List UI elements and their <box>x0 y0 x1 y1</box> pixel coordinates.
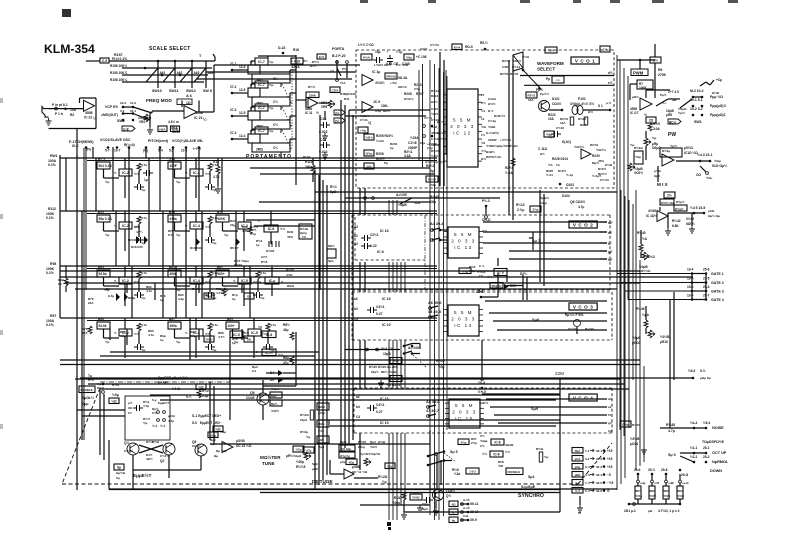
svg-text:M I X: M I X <box>657 182 669 187</box>
svg-text:0.01 CE: 0.01 CE <box>386 62 399 66</box>
svg-text:22M: 22M <box>555 371 564 376</box>
svg-text:100K: 100K <box>218 217 226 221</box>
left long verticals <box>76 155 78 490</box>
svg-text:4½Ω½: 4½Ω½ <box>375 81 385 85</box>
resistor R83 100+ <box>226 322 239 329</box>
svg-text:KLM-354: KLM-354 <box>44 42 95 56</box>
resistor R149 10A <box>634 151 643 164</box>
label SW box effect <box>114 464 124 470</box>
svg-text:R½22: R½22 <box>649 494 656 498</box>
trimmer under IC-5 <box>266 323 270 331</box>
gate feed wires <box>617 273 692 275</box>
central vertical bus B <box>340 100 342 452</box>
svg-text:R54(½H: R54(½H <box>492 284 502 288</box>
svg-text:A-15: A-15 <box>463 498 470 502</box>
svg-text:Gμ½Ω: Gμ½Ω <box>116 471 126 475</box>
svg-text:B-2 P-20: B-2 P-20 <box>332 54 346 58</box>
resistor R93 470K <box>317 403 329 410</box>
svg-text:Ω½C½: Ω½C½ <box>404 97 414 101</box>
svg-text:C108: C108 <box>402 62 410 66</box>
svg-text:1μ: 1μ <box>390 146 394 150</box>
svg-text:2½: 2½ <box>667 194 672 198</box>
svg-text:C2½: C2½ <box>261 255 268 259</box>
svg-text:½7μ: ½7μ <box>396 50 402 54</box>
svg-text:R½4Ω: R½4Ω <box>634 146 643 150</box>
wire mix node <box>657 166 659 182</box>
svg-text:Pμ: Pμ <box>384 161 388 165</box>
svg-text:Ω½: Ω½ <box>588 110 593 114</box>
svg-text:+½μ: +½μ <box>360 129 366 133</box>
svg-text:32-2: 32-2 <box>596 457 602 461</box>
cap under IC-2 <box>134 292 144 298</box>
svg-text:4.7¼: 4.7¼ <box>136 230 143 234</box>
bus rail R97 <box>60 317 437 319</box>
svg-text:μΩ14: μΩ14 <box>630 442 638 446</box>
svg-text:R½7: R½7 <box>88 378 95 382</box>
svg-text:JC 9: JC 9 <box>373 100 380 104</box>
svg-text:R½1μ: R½1μ <box>635 494 642 498</box>
svg-text:Ω½μ: Ω½μ <box>366 152 373 156</box>
svg-text:0.1%: 0.1% <box>48 163 56 167</box>
svg-text:½μ½: ½μ½ <box>670 144 677 148</box>
svg-text:32-3: 32-3 <box>596 465 602 469</box>
wire stub left of IC-2 <box>103 277 105 286</box>
svg-text:D10 D11: D10 D11 <box>190 246 202 250</box>
svg-text:R81: R81 <box>169 318 175 322</box>
svg-text:½00-4Ωμ: ½00-4Ωμ <box>340 447 351 451</box>
svg-text:12-5: 12-5 <box>239 111 246 115</box>
cap under IC-5 <box>263 344 273 350</box>
wires mixer2 <box>659 207 661 211</box>
svg-text:47Ω: 47Ω <box>598 159 604 163</box>
svg-text:Ω½μ: Ω½μ <box>622 423 629 427</box>
svg-text:RΩ½: RΩ½ <box>328 244 335 248</box>
svg-text:½μ½: ½μ½ <box>678 111 685 115</box>
svg-text:μΩμ Sμ: μΩμ Sμ <box>700 376 711 380</box>
svg-text:−½5: −½5 <box>607 481 614 485</box>
svg-text:½0μ: ½0μ <box>112 393 119 397</box>
svg-text:R8½: R8½ <box>283 323 290 327</box>
svg-text:½μ: ½μ <box>382 480 387 484</box>
svg-text:IC-8: IC-8 <box>493 453 499 457</box>
svg-text:IC-½: IC-½ <box>265 351 273 355</box>
gate wires down <box>691 274 693 300</box>
wire left bottom vertical <box>559 440 561 489</box>
svg-text:10A: 10A <box>548 117 555 121</box>
svg-text:SW1: SW1 <box>694 120 702 124</box>
svg-text:R½μ½: R½μ½ <box>676 200 685 204</box>
svg-text:5-7: 5-7 <box>105 149 110 153</box>
svg-text:½μ: ½μ <box>143 421 148 425</box>
svg-text:5μΩ: 5μΩ <box>328 259 334 263</box>
effect transistors Q1 Q2 <box>127 443 139 455</box>
svg-text:μ7μ: μ7μ <box>340 460 346 464</box>
svg-text:4Ω½: 4Ω½ <box>146 457 153 461</box>
svg-text:½Ω½: ½Ω½ <box>420 47 428 51</box>
box 25a vco3 row <box>390 358 402 364</box>
svg-text:I½A: I½A <box>340 81 346 85</box>
svg-text:½Ωμ: ½Ωμ <box>714 159 721 163</box>
svg-text:TUNE: TUNE <box>262 461 275 466</box>
svg-text:R½42: R½42 <box>672 219 681 223</box>
svg-text:R208: R208 <box>404 92 412 96</box>
feedback loop wire for IC22 <box>80 97 97 99</box>
svg-text:5-μ: 5-μ <box>152 398 157 402</box>
svg-text:C2: C2 <box>354 242 358 246</box>
svg-text:μR15: μR15 <box>660 340 668 344</box>
resistor R205 R206 block <box>364 134 374 140</box>
op-amp IC22 1/2 effect <box>222 442 233 453</box>
svg-text:0.22: 0.22 <box>370 244 377 248</box>
svg-text:13-0: 13-0 <box>687 294 694 298</box>
svg-text:C½11: C½11 <box>360 118 368 122</box>
svg-text:D-22: D-22 <box>278 46 285 50</box>
wire to C-9 <box>86 60 100 62</box>
svg-text:Q½: Q½ <box>446 494 451 498</box>
analog switch IC-4 <box>190 222 203 229</box>
svg-text:½ΩΩ: ½ΩΩ <box>488 125 496 129</box>
input jack P in <box>42 107 49 118</box>
svg-text:R2½9: R2½9 <box>590 143 598 147</box>
svg-text:μR5: μR5 <box>666 113 672 117</box>
box DOUBLE <box>79 386 95 393</box>
svg-text:2½: 2½ <box>335 112 340 116</box>
box 29a vco3 row <box>390 376 402 382</box>
svg-text:½0½B: ½0½B <box>630 437 640 441</box>
svg-text:2.½μ: 2.½μ <box>517 208 524 212</box>
svg-text:D½U: D½U <box>206 338 213 342</box>
svg-text:Pμμ(μΩ)½: Pμμ(μΩ)½ <box>710 104 726 108</box>
svg-text:5 5 M: 5 5 M <box>454 232 473 237</box>
svg-text:4½Ω: 4½Ω <box>286 273 293 277</box>
svg-text:459a: 459a <box>170 324 177 328</box>
svg-text:4 Tμ: 4 Tμ <box>143 404 149 408</box>
svg-text:GATE 2: GATE 2 <box>711 281 724 285</box>
svg-text:1μ: 1μ <box>144 178 148 182</box>
wire from 22M down <box>559 378 561 440</box>
svg-text:½Ω: ½Ω <box>481 125 487 129</box>
svg-text:1000P: 1000P <box>408 146 418 150</box>
svg-text:½2μ: ½2μ <box>430 183 436 187</box>
svg-text:10-7: 10-7 <box>114 149 121 153</box>
svg-text:PORTAMENTO: PORTAMENTO <box>246 154 292 160</box>
arrow box 23 <box>334 118 345 123</box>
wire stub left of IC-2 <box>103 169 105 178</box>
svg-text:R2: R2 <box>70 113 74 117</box>
portamento row 4 wires <box>250 130 252 134</box>
svg-text:R119: R119 <box>305 160 313 164</box>
wire stub left of IC-4 <box>174 169 176 178</box>
svg-text:R½Ω: R½Ω <box>152 440 160 444</box>
waveform select switch flag <box>513 52 523 71</box>
box 31 <box>213 426 223 432</box>
svg-text:R½Ω: R½Ω <box>536 447 544 451</box>
svg-text:C3½1: C3½1 <box>376 305 385 309</box>
cap under IC-2 <box>134 344 144 350</box>
analog switch IC-4 <box>190 277 203 284</box>
svg-text:R97: R97 <box>50 314 56 318</box>
switch SW5 arms <box>428 452 444 457</box>
svg-text:½μ: ½μ <box>224 233 229 237</box>
svg-text:R230: R230 <box>592 154 600 158</box>
svg-text:P½: P½ <box>342 67 347 71</box>
bus rail R98 <box>60 265 437 267</box>
analog switch IC-2 <box>119 329 132 336</box>
svg-text:IO-C: IO-C <box>72 144 79 148</box>
resistor R15 4.7K <box>216 166 220 174</box>
resistor R34 55a 0.1% <box>97 215 110 222</box>
svg-text:12-4: 12-4 <box>239 134 246 138</box>
svg-text:230K: 230K <box>309 93 317 97</box>
cross coupling wires Q1 Q2 <box>139 445 163 453</box>
svg-text:IC1Ω ½Ω: IC1Ω ½Ω <box>684 151 698 155</box>
svg-text:IC 16: IC 16 <box>382 297 391 301</box>
svg-text:C1½8: C1½8 <box>408 141 417 145</box>
wire vco2 bottom cluster <box>497 258 499 266</box>
svg-text:C7: C7 <box>128 411 132 415</box>
svg-text:½μ: ½μ <box>176 233 181 237</box>
svg-text:C11: C11 <box>320 138 326 142</box>
cap under IC-4 <box>205 237 215 243</box>
svg-text:C11Ω: C11Ω <box>488 97 496 101</box>
svg-text:3.0A: 3.0A <box>653 127 660 131</box>
svg-text:½2: ½2 <box>481 141 486 145</box>
IC13 chip SSM 2033 <box>448 227 479 258</box>
svg-text:NμRMΩL: NμRMΩL <box>712 460 729 464</box>
resistor R81 459a <box>168 322 181 329</box>
transistor Q8 <box>195 444 207 456</box>
wire stub left of IC-4 <box>174 329 176 338</box>
svg-text:½Ωμ: ½Ωμ <box>210 433 217 437</box>
svg-text:D½U: D½U <box>206 295 213 299</box>
svg-text:C½: C½ <box>480 444 485 448</box>
wire IC21 output right <box>197 111 214 113</box>
svg-text:24μA: 24μA <box>300 418 308 422</box>
resistor R54 3H diode D26 <box>490 283 503 289</box>
horizontal mid links <box>250 167 430 169</box>
resistor R94 55A <box>317 420 329 427</box>
svg-text:EμμE½T: EμμE½T <box>158 401 169 405</box>
svg-text:2MΩ: 2MΩ <box>256 148 263 152</box>
porta junction wires <box>296 99 306 101</box>
svg-text:½μ: ½μ <box>176 340 181 344</box>
svg-text:4.7a: 4.7a <box>212 323 218 327</box>
svg-text:29-½: 29-½ <box>648 468 656 472</box>
svg-text:R½5: R½5 <box>653 122 660 126</box>
svg-text:R89: R89 <box>98 318 104 322</box>
arrow box D-3 <box>668 119 681 124</box>
VCO2 inner sub-box dashed <box>355 259 425 261</box>
svg-text:C-½Ω½¼: C-½Ω½¼ <box>431 137 445 141</box>
svg-text:D16 D15: D16 D15 <box>131 245 143 249</box>
svg-text:A16: A16 <box>169 158 175 162</box>
svg-text:½00½: ½00½ <box>271 409 279 413</box>
wire bundle bottom into transistor <box>436 455 438 489</box>
portamento row 1 wires <box>250 61 252 65</box>
svg-text:R½4½ 4ΩA: R½4½ 4ΩA <box>661 201 675 205</box>
op-amp IC11 1/2 portamento <box>308 98 318 108</box>
wire freq mod to opamp IC21 <box>152 110 184 112</box>
wire vco3 29-5 link <box>481 340 483 379</box>
svg-text:6.4: 6.4 <box>252 369 257 373</box>
ground under VR14 <box>641 447 647 454</box>
resistor R11B 2ACA 1% box <box>299 224 312 239</box>
svg-text:Pμ½½: Pμ½½ <box>540 92 549 96</box>
svg-text:R½12: R½12 <box>431 89 439 93</box>
svg-text:R½0μ: R½0μ <box>300 430 308 434</box>
svg-text:25-2: 25-2 <box>703 455 710 459</box>
svg-text:IC-4: IC-4 <box>193 171 200 175</box>
svg-text:IC 21: IC 21 <box>194 116 203 120</box>
svg-text:5%: 5% <box>86 148 92 152</box>
svg-text:1μ: 1μ <box>160 338 164 342</box>
svg-text:½μ: ½μ <box>544 455 549 459</box>
svg-text:DOWN: DOWN <box>710 469 722 473</box>
svg-text:4.7a: 4.7a <box>141 163 147 167</box>
svg-text:R226 D101: R226 D101 <box>552 157 568 161</box>
diode CR6 <box>330 87 340 93</box>
svg-text:RW1: RW1 <box>50 154 58 158</box>
bus rail RW1 <box>60 157 437 159</box>
svg-text:SW11: SW11 <box>169 89 179 93</box>
svg-text:IC /17: IC /17 <box>630 111 639 115</box>
svg-text:½0μ: ½0μ <box>635 155 641 159</box>
cap under IC-4 <box>205 344 215 350</box>
svg-text:A=½00: A=½00 <box>408 346 419 350</box>
svg-text:10-3: 10-3 <box>120 101 126 105</box>
svg-text:C½: C½ <box>603 48 608 52</box>
svg-text:3-2: 3-2 <box>585 457 590 461</box>
svg-text:Ω½Ω: Ω½Ω <box>605 163 613 167</box>
box 29 <box>646 117 656 123</box>
op-amp IC19 <box>362 75 373 86</box>
svg-text:f4': f4' <box>608 413 612 417</box>
svg-text:C½: C½ <box>273 100 278 104</box>
svg-text:1μ: 1μ <box>232 297 236 301</box>
right bundle verticals <box>635 190 637 470</box>
wire pwm top <box>639 60 641 69</box>
svg-text:CD½: CD½ <box>332 88 339 92</box>
svg-text:d½´: d½´ <box>608 71 614 75</box>
svg-text:R½2Ω: R½2Ω <box>378 475 388 479</box>
svg-text:ΩC ½1 ½Ω: ΩC ½1 ½Ω <box>352 470 368 474</box>
svg-text:4μ: 4μ <box>452 518 456 522</box>
right bus verticals from VCO1 <box>619 60 621 430</box>
svg-text:R93: R93 <box>98 266 104 270</box>
svg-text:4.7μ: 4.7μ <box>168 419 174 423</box>
svg-text:R83: R83 <box>227 318 233 322</box>
svg-text:½Ωμ: ½Ωμ <box>387 464 394 468</box>
svg-text:R34: R34 <box>98 211 104 215</box>
svg-text:BC½: BC½ <box>669 121 677 125</box>
svg-text:GATE 1: GATE 1 <box>711 272 724 276</box>
svg-text:IC 10: IC 10 <box>380 421 389 425</box>
svg-text:VR½0Ω: VR½0Ω <box>386 75 397 79</box>
row4 wires <box>109 329 111 340</box>
svg-text:FREQ MOD: FREQ MOD <box>146 98 172 104</box>
svg-text:5-2: 5-2 <box>575 481 579 485</box>
svg-text:4ΩAB: 4ΩAB <box>505 443 514 447</box>
svg-text:4.7a: 4.7a <box>141 323 147 327</box>
svg-text:C4: C4 <box>356 415 360 419</box>
svg-text:R9-½: R9-½ <box>480 41 488 45</box>
svg-text:R155 10K¾: R155 10K¾ <box>110 71 127 75</box>
resistor R92b <box>317 436 329 443</box>
capacitor C311 0.27 <box>367 307 377 313</box>
vco4 dashed enclosure <box>354 387 612 389</box>
svg-text:H½A: H½A <box>363 56 371 60</box>
resistor A16 105F <box>168 162 181 169</box>
resistor R119 240a <box>312 158 314 165</box>
dash-dot line effect top <box>100 381 230 383</box>
svg-text:IC-5: IC-5 <box>251 331 258 335</box>
trimmer under IC-4 <box>208 163 212 171</box>
svg-text:IC-4: IC-4 <box>193 224 200 228</box>
mix opamp feedback resistor <box>660 148 682 157</box>
svg-text:3.3A: 3.3A <box>404 154 411 158</box>
svg-text:Rμ: Rμ <box>216 449 220 453</box>
diode pair D302 <box>269 241 279 247</box>
svg-text:GATE 3: GATE 3 <box>711 290 724 294</box>
svg-text:32-5: 32-5 <box>596 481 602 485</box>
svg-text:R½1: R½1 <box>330 185 337 189</box>
svg-text:2 0 3 3: 2 0 3 3 <box>452 410 477 415</box>
svg-text:R48(BUCK): R48(BUCK) <box>340 92 356 96</box>
svg-text:R½00: R½00 <box>286 268 294 272</box>
svg-text:R156 10K½: R156 10K½ <box>110 64 127 68</box>
svg-text:D8: D8 <box>247 295 251 299</box>
svg-text:32-4: 32-4 <box>596 473 602 477</box>
svg-text:+μ-Ω: +μ-Ω <box>682 481 689 485</box>
svg-text:0.1%: 0.1% <box>46 271 54 275</box>
resistor R212 124 box <box>426 176 438 182</box>
svg-text:R2½8: R2½8 <box>510 72 518 76</box>
svg-text:C 11Ω: C 11Ω <box>538 147 548 151</box>
resistor cluster right of IC19 <box>385 73 397 79</box>
IC12 chip SSM 2033 <box>447 89 478 167</box>
svg-text:V C O 2: V C O 2 <box>573 223 594 228</box>
svg-text:IC-7: IC-7 <box>258 60 265 64</box>
svg-text:a3: a3 <box>354 297 358 301</box>
svg-text:270K: 270K <box>658 73 667 77</box>
svg-text:Ωμ5: Ωμ5 <box>654 174 660 178</box>
svg-text:G: G <box>578 511 581 515</box>
svg-text:VCO(½)SLAVE 05L: VCO(½)SLAVE 05L <box>172 139 204 143</box>
svg-text:R½6: R½6 <box>261 260 268 264</box>
svg-text:⌁⌁: ⌁⌁ <box>556 78 560 82</box>
svg-text:½μ: ½μ <box>141 296 146 300</box>
svg-text:½2a: ½2a <box>454 472 460 476</box>
svg-text:Q6 CΩ4½: Q6 CΩ4½ <box>570 200 586 204</box>
wire stub left of IC-2 <box>103 222 105 231</box>
central vertical bus D <box>388 200 390 215</box>
header node dots and pins <box>85 146 88 149</box>
svg-text:55a 0.1%: 55a 0.1% <box>99 217 113 221</box>
svg-text:25-1: 25-1 <box>703 446 710 450</box>
svg-text:4.7K: 4.7K <box>213 175 220 179</box>
svg-text:0-Ω: 0-Ω <box>463 514 469 518</box>
svg-text:Sμ4: Sμ4 <box>528 475 534 479</box>
svg-text:+Hμ: +Hμ <box>640 481 646 485</box>
svg-text:R½02: R½02 <box>234 263 242 267</box>
svg-text:½Ω+: ½Ω+ <box>706 176 713 180</box>
svg-text:M-2 10-2: M-2 10-2 <box>690 89 704 93</box>
svg-text:½μ: ½μ <box>269 83 274 87</box>
svg-text:29-Ω: 29-Ω <box>681 473 689 477</box>
matrix column verticals <box>92 147 94 158</box>
svg-text:RESET: RESET <box>158 381 169 385</box>
transistor Q synchro <box>433 490 444 501</box>
